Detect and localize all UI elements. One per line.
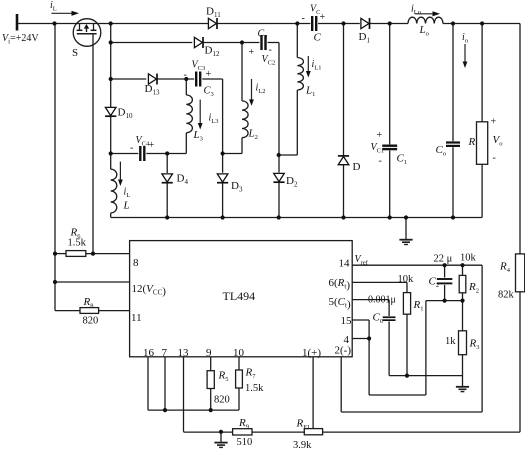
svg-text:S: S (72, 47, 78, 59)
svg-text:C: C (314, 32, 322, 44)
svg-text:TL494: TL494 (223, 289, 256, 303)
svg-text:-: - (379, 156, 382, 167)
svg-text:14: 14 (339, 258, 351, 270)
svg-text:0.001μ: 0.001μ (368, 295, 396, 306)
svg-text:820: 820 (214, 395, 230, 406)
svg-text:510: 510 (237, 437, 253, 448)
svg-text:3.9k: 3.9k (293, 440, 312, 451)
svg-text:8: 8 (133, 257, 139, 269)
svg-text:+: + (320, 12, 326, 23)
svg-text:10k: 10k (398, 274, 415, 285)
svg-text:L: L (123, 200, 130, 212)
svg-text:+: + (377, 130, 383, 141)
svg-text:+: + (206, 69, 212, 80)
svg-text:R: R (468, 136, 476, 148)
svg-text:22 μ: 22 μ (434, 254, 453, 265)
svg-text:1(+): 1(+) (302, 347, 321, 359)
svg-text:1.5k: 1.5k (68, 238, 87, 249)
svg-text:1.5k: 1.5k (245, 383, 264, 394)
svg-text:10: 10 (233, 347, 245, 359)
svg-text:16: 16 (143, 347, 155, 359)
svg-text:-: - (184, 70, 187, 81)
svg-text:82k: 82k (498, 290, 515, 301)
svg-text:820: 820 (83, 316, 99, 327)
svg-text:10k: 10k (460, 253, 477, 264)
svg-text:9: 9 (206, 347, 212, 359)
svg-text:15: 15 (341, 315, 353, 327)
svg-text:D: D (353, 161, 361, 173)
svg-text:13: 13 (178, 347, 190, 359)
svg-text:+: + (149, 140, 155, 151)
svg-text:+: + (249, 47, 255, 58)
svg-text:Vi=+24V: Vi=+24V (2, 33, 39, 46)
svg-text:7: 7 (162, 347, 168, 359)
svg-text:-: - (302, 13, 305, 24)
svg-text:+: + (491, 117, 497, 128)
svg-text:-: - (493, 153, 496, 164)
svg-text:-: - (269, 45, 272, 56)
svg-text:4: 4 (344, 334, 350, 346)
svg-text:2(-): 2(-) (335, 345, 352, 357)
svg-text:-: - (130, 143, 133, 154)
svg-text:1k: 1k (445, 336, 456, 347)
svg-text:11: 11 (131, 312, 142, 324)
